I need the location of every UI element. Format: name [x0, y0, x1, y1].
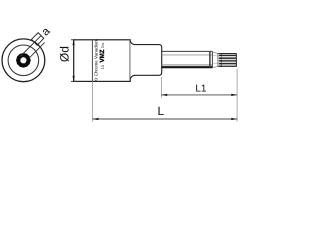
dimension L arrowheads: [93, 118, 238, 120]
dimension Od arrowheads: [73, 40, 75, 82]
cone faint line 2: [213, 63, 218, 65]
spline tip top edge: [218, 53, 236, 55]
cone bottom edge: [213, 66, 218, 67]
shaft top edge: [162, 50, 213, 52]
shared right extension line: [236, 69, 238, 122]
spline tip bottom edge: [218, 65, 236, 67]
shaft end chamfer line: [209, 52, 211, 69]
shaft bottom edge: [162, 66, 213, 68]
body face line (L datum): [91, 40, 93, 81]
square drive symbol: [32, 33, 44, 46]
svg-text:L1: L1: [195, 84, 207, 95]
dimension L1 arrowheads: [161, 94, 237, 96]
spline tooth band 1: [219, 55, 236, 63]
cone top edge: [213, 52, 218, 54]
dimension L1 line: [161, 94, 237, 96]
svg-text:10: 10: [100, 64, 105, 69]
svg-text:VMZ: VMZ: [99, 49, 106, 62]
spline tip body: [218, 53, 236, 66]
end view outer circle: [2, 39, 45, 82]
dimension L extension line left: [92, 81, 94, 121]
dimension L line: [93, 118, 238, 120]
socket body: [74, 40, 131, 82]
svg-text:L: L: [158, 104, 165, 118]
svg-text:Xw: Xw: [100, 43, 105, 49]
svg-text:Xr Chrome Vanadium: Xr Chrome Vanadium: [94, 39, 99, 82]
dimension Od line with arrows: [71, 40, 77, 82]
svg-text:Ød: Ød: [57, 46, 71, 62]
shaft highlight line: [162, 54, 213, 56]
dimension a leader line 2: [29, 43, 45, 59]
spline hole ring: [16, 53, 31, 68]
spline tooth chamfer triangles: [218, 54, 222, 67]
shaft end face: [211, 52, 213, 68]
collar cylinder: [130, 41, 161, 78]
dimension a leader line 1: [20, 36, 41, 57]
dimension L1 extension line left: [160, 77, 162, 98]
end view chamfer circle: [8, 45, 39, 76]
shaft lower shade line: [162, 64, 213, 66]
spline tip end face: [235, 53, 237, 66]
cone faint line 1: [213, 54, 218, 57]
spline base line: [217, 54, 219, 67]
